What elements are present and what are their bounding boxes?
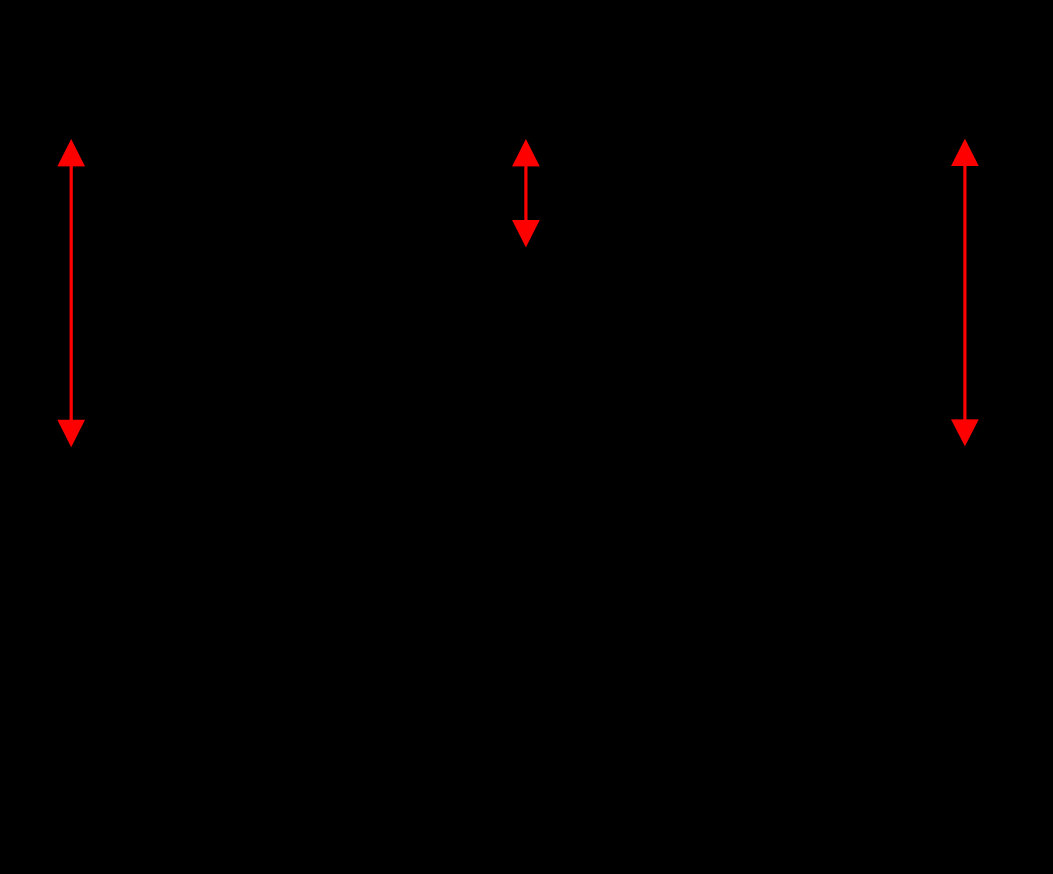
dimension arrow left (tall red double-headed) — [57, 139, 85, 447]
dimension arrow middle (short red double-headed) — [512, 139, 540, 247]
dimension arrow right (tall red double-headed) — [951, 139, 979, 447]
